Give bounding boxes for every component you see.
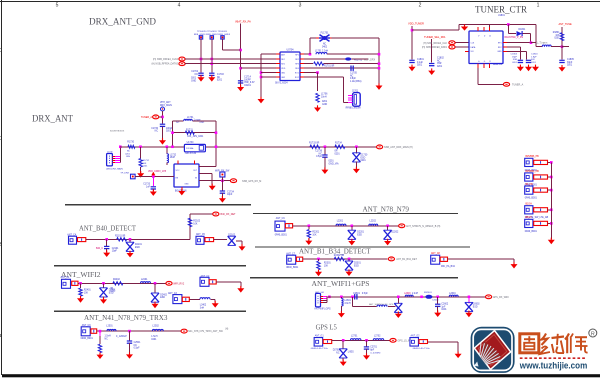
vertical ground bus left of U0704 [260,54,262,97]
connector pin feed [344,101,348,103]
GPS series element [323,340,332,344]
connector pins [112,155,115,157]
svg-text:0201: 0201 [335,153,341,155]
wire row3 resistor [304,63,313,65]
svg-text:0R: 0R [335,151,338,153]
ground C2501 [126,352,133,359]
ferrite bead FB2601 [425,295,432,299]
svg-text:GND_VIA: GND_VIA [329,162,340,165]
svg-text:1nF: 1nF [146,186,151,188]
wire coil down [340,297,342,299]
resistor R2402 on wire [113,282,123,285]
connector vertical bus [119,147,121,163]
off-page oval ANT_DRX [377,145,383,149]
svg-text:10K: 10K [193,223,198,225]
svg-text:VBAT_RX_PA: VBAT_RX_PA [235,20,251,23]
wire L2402 to gnd [210,298,215,300]
svg-text:B41/B7/B38JS: B41/B7/B38JS [110,131,125,133]
op-amp U0704 antenna switch IC [280,52,300,81]
wire GPS main [332,339,390,341]
resistor R1732 vertical [140,147,142,159]
wire B40 main [86,238,190,240]
wire W R down [80,283,82,288]
svg-text:NC: NC [350,75,354,77]
resistor pack 3 [534,188,548,192]
svg-text:1.1E (R5A): 1.1E (R5A) [350,80,362,83]
svg-text:10K_JRS_0201: 10K_JRS_0201 [187,136,204,138]
svg-text:FB1701: FB1701 [354,59,363,61]
svg-text:ANT_B1_B34_DET: ANT_B1_B34_DET [396,258,417,261]
off-page oval GPS RX [230,179,236,183]
junction main-loop right [215,145,218,148]
ground C1802 [428,68,435,75]
ground C1804 [525,65,532,72]
svg-text:TDK-XTFM: TDK-XTFM [184,153,196,155]
svg-text:N41_N78_N79_TRX3_ANT_SW: N41_N78_N79_TRX3_ANT_SW [188,330,223,333]
svg-text:ANT_N78_N79: ANT_N78_N79 [363,205,410,213]
junction W X2 [154,282,157,285]
svg-text:RF2: RF2 [498,47,502,49]
svg-text:L2702: L2702 [374,335,381,337]
svg-text:ANT_SWITCH_TO_GPS: ANT_SWITCH_TO_GPS [369,303,394,306]
svg-text:ANT_C6: ANT_C6 [276,217,286,220]
ground below C1 [237,85,244,92]
svg-text:TP_DRX: TP_DRX [120,173,129,175]
N78 series element [285,224,292,228]
junction R1732 [139,145,142,148]
capacitor C1802 [429,64,434,66]
svg-text:0201: 0201 [125,153,131,155]
wire X up to main [397,297,399,304]
svg-text:DRX_ANT_GND: DRX_ANT_GND [89,16,156,27]
U1731 top pin stubs [177,161,179,165]
junction loop left [351,296,354,299]
svg-text:10pF: 10pF [112,251,118,253]
svg-text:L2201: L2201 [337,220,344,222]
ESD D2202 X [384,230,392,239]
svg-text:U0704: U0704 [286,49,294,52]
column bus ground [548,238,555,245]
wire IN pin right [199,180,231,182]
wire C1733 down [152,189,154,191]
ground D2301 [346,269,353,276]
J2601 maroon wires [323,299,327,301]
wire X gnd [397,311,399,314]
svg-text:C2101: C2101 [112,248,119,250]
svg-text:U1801: U1801 [498,15,505,17]
loop top wire right [192,120,216,122]
svg-text:0201: 0201 [554,38,560,40]
svg-text:RF1: RF1 [498,43,502,45]
wire TRX3 cap down [129,331,131,341]
svg-text:5: 5 [56,3,59,9]
svg-text:SKY5_A234: SKY5_A234 [275,82,288,85]
ferrite bead FB1701 [345,57,351,60]
svg-text:(H) NXB_RFFE0_DATA: (H) NXB_RFFE0_DATA [422,46,448,49]
pin stub left U0704 [276,53,280,55]
magenta junction TRX3 [99,330,102,333]
svg-text:TUNER_A: TUNER_A [512,83,524,86]
wire to gnd corner [236,240,242,242]
inductor L2602 on loop [377,305,387,307]
resistor R2201 vertical [307,230,310,239]
wire up to tuner butterfly [309,38,311,54]
svg-text:0201: 0201 [191,78,197,80]
resistor R1731 on loop middle [185,131,194,134]
capacitor C2602 [435,304,440,306]
pin stub top U1801 [477,27,479,31]
ground R1732 [137,171,144,178]
node junction VBAT-1 [239,49,242,52]
resistor pack 1 [534,160,548,164]
ESD D2102 X on wire [228,236,236,245]
svg-text:WIFI_RX2: WIFI_RX2 [173,282,185,285]
resistor R1702 vertical [316,93,319,102]
svg-text:D1801: D1801 [519,29,526,31]
inductor L2701 [350,339,361,341]
pin stub left3 [465,50,469,52]
VDD up arrow [151,172,155,176]
ESD D2101 X symbol [126,242,134,251]
junction W ESD [102,282,105,285]
LNA IC U1731 [174,164,199,187]
off-page oval GPS L5 [390,338,396,342]
divider line WIFI1 [250,277,458,279]
svg-text:NC: NC [195,74,199,76]
svg-text:J1730: J1730 [107,151,113,153]
svg-text:L2402: L2402 [200,305,207,307]
svg-text:3.9nH: 3.9nH [344,303,350,305]
junction ESD B40 [129,238,132,241]
svg-text:0R40_B001: 0R40_B001 [525,231,538,233]
svg-text:FL1701: FL1701 [321,33,330,35]
ground U1731 [178,189,185,196]
svg-text:www.tuzhijie.com: www.tuzhijie.com [519,361,588,371]
wire R down [308,226,310,230]
ESD D2602 X [465,302,473,311]
wire EN pin right down [199,173,212,175]
divider line TRX3 [54,310,246,312]
ground C2602 [434,310,441,317]
svg-text:1.8pF: 1.8pF [531,56,537,58]
svg-text:0_0.8GHZ: 0_0.8GHZ [370,353,381,355]
wire row4 [304,67,379,69]
connector pin magenta [348,97,353,99]
capacitor C1805 [559,60,564,62]
logo dashed line [520,357,587,359]
wire up to detect out [189,214,191,239]
svg-text:ANT_WIFI1+GPS: ANT_WIFI1+GPS [312,280,370,288]
junction C1736 [324,145,327,148]
wire W ESD down [103,283,105,288]
wire WIFI2 main [78,282,166,284]
svg-text:50V: 50V [531,59,535,61]
capacitor C2501 [127,341,132,343]
wire ESD1 down [351,226,353,231]
testpoint pad circle [161,107,165,111]
junction cap right [436,296,439,299]
svg-text:R2201: R2201 [312,232,319,234]
junction ESD2 [386,225,389,228]
svg-text:10K: 10K [312,234,317,236]
net pad NC2 [210,36,213,39]
junction wires row1 [200,58,203,61]
GPS right series element [419,340,428,344]
ESD D2401 X [100,288,108,297]
antenna connector J1730 [107,154,113,166]
wire C1734 down [221,193,223,197]
off-page oval TUNER_A [503,82,509,86]
ESD D2301 X [345,261,353,270]
junction W R [79,282,82,285]
svg-text:R1732: R1732 [143,160,150,162]
svg-text:L2502: L2502 [152,326,159,328]
wire N78 main [293,225,399,227]
ground C1803 [517,65,524,72]
junction GPS cap [365,339,368,342]
pin stub left U0704 [276,58,280,60]
wire ESD2 gnd [387,239,389,240]
svg-text:ANT_C5: ANT_C5 [196,233,206,236]
pin stub right U0704 [300,58,304,60]
ground D2701 [340,359,347,366]
ground of left bus [258,97,265,104]
svg-text:D2301: D2301 [354,263,361,265]
pin stub bottom U1801 [489,64,491,68]
inductor L2401 [141,282,151,284]
connector pin magenta [348,99,353,101]
svg-text:NC: NC [155,131,159,133]
loop wire down [352,297,354,307]
svg-text:J1701: J1701 [352,91,359,93]
resistor pack 4 [534,208,548,212]
svg-text:X5R_6.3V: X5R_6.3V [244,82,255,84]
wire R2501 gnd [99,353,101,354]
node junction VBAT-2 [239,67,242,70]
svg-text:(H) NSB_RFFE4_DATA2: (H) NSB_RFFE4_DATA2 [152,63,179,66]
wire VDD vertical [411,26,413,59]
svg-text:VCC: VCC [176,170,181,172]
power arrow on wire [461,25,468,31]
svg-text:MIC_PA_B34: MIC_PA_B34 [441,265,455,268]
svg-text:C1730: C1730 [151,128,158,130]
svg-text:4: 4 [178,3,181,9]
ESD protection D1730 X symbol [352,153,360,162]
wire oval to node [159,116,163,118]
wire pack to bus 2 [548,176,552,178]
svg-text:DRX_ANT: DRX_ANT [32,113,73,124]
svg-text:LXES: LXES [348,351,354,353]
svg-text:GND: GND [191,80,196,82]
ground C1730 [159,138,166,145]
svg-text:L2501: L2501 [106,326,113,328]
ground R2401 [77,296,84,303]
off-page oval GPS WIFI [486,295,492,299]
ESD D2201 X [348,230,356,239]
bus junction p5 [260,71,263,74]
wire ESD gnd B1 [348,270,350,271]
svg-text:0201: 0201 [512,62,518,64]
ground below C3 [208,75,215,82]
svg-text:C2701: C2701 [370,347,377,349]
capacitor C2701 [364,347,369,349]
wire pack to bus 5 [548,222,552,224]
off-page oval B1 det [388,257,394,261]
svg-text:L2401: L2401 [141,279,148,281]
ground D2201 [348,239,355,246]
wire W X2 gnd [154,302,156,303]
wire WIFI2 right [216,281,241,283]
svg-text:18pF: 18pF [512,56,518,58]
ground C1801 [409,65,416,72]
ground R2201 [305,238,312,245]
RF test connector J1701 [353,93,361,107]
svg-text:0201: 0201 [441,309,447,311]
svg-text:NC: NC [323,44,327,46]
wire R2401 gnd [80,296,82,298]
off-page connector RFFE CLK oval [179,57,185,61]
WIFI2 right series element [209,280,216,284]
svg-text:D2102: D2102 [228,235,235,237]
wire ESD2 down [387,226,389,231]
wire bus to pin5 [261,72,276,74]
svg-text:0201: 0201 [110,291,116,293]
svg-text:C2603: C2603 [432,300,439,302]
divider line WIFI2 [54,265,246,267]
loop top wire left [173,120,184,122]
wire B1 main [303,258,388,260]
wire testpoint down [162,111,164,124]
U1731 bottom stub [181,187,183,191]
svg-text:ESD: ESD [473,306,478,308]
svg-text:0201: 0201 [329,161,335,163]
wire B1 R down [318,259,320,261]
wire RFFE DATA [185,63,280,65]
svg-text:0201: 0201 [166,131,172,133]
right vertical drop [378,38,380,84]
capacitor C1801 [409,60,414,62]
divider line B40 [65,204,251,206]
ground C1733 [150,189,157,196]
svg-text:ESD: ESD [354,265,359,267]
resistor R2102 vertical [188,218,191,227]
inductor L2201 [336,224,346,226]
pin stub left U0704 [276,63,280,65]
wire cap down [162,126,164,139]
svg-text:NC: NC [336,352,340,354]
wire VBAT to pin4 [241,67,280,69]
svg-text:RO2: RO2 [295,77,299,79]
junction at coil [309,53,312,56]
svg-text:VPH_ANT: VPH_ANT [160,101,171,104]
pin stub bottom U1801 [483,64,485,68]
capacitor C1 on VBAT [238,81,243,83]
wire TRX3 main [97,330,181,332]
connector pin magenta [348,101,353,103]
sheet left border [1,0,3,375]
ground third [532,65,539,72]
svg-text:2.2nH: 2.2nH [412,293,418,295]
capacitor C3 [209,73,214,75]
svg-text:(H): (H) [225,329,228,331]
ground L2601 [338,311,345,318]
svg-text:ESD: ESD [357,234,362,236]
main RF wire DRX [120,146,377,148]
ground C1805 [559,65,566,72]
resistor R1801 vertical [560,33,563,41]
capacitor C1804 [526,60,531,62]
logo fan tip [474,362,479,367]
svg-text:L2202: L2202 [370,220,377,222]
svg-text:GPS_RX_WIFI: GPS_RX_WIFI [493,296,509,299]
svg-text:R1734: R1734 [335,143,342,145]
inductor L1731 on loop top [184,119,193,121]
resistor R1734 on main wire [335,145,345,148]
pin stub top U1801 [483,27,485,31]
svg-text:ESD: ESD [160,297,165,299]
svg-text:GND: GND [184,184,189,186]
wire C2701 gnd [366,349,368,355]
magenta stub GPS X [468,297,470,304]
off-page oval N78 [399,224,405,228]
svg-text:VIO: VIO [471,51,475,53]
ground right B1 [511,262,518,269]
svg-text:C2501: C2501 [134,342,141,344]
svg-text:D2701: D2701 [333,350,340,352]
svg-text:C1802: C1802 [437,58,444,60]
junction main-loop left [171,145,174,148]
wire diode to vertical [523,33,531,35]
off-page oval TUNER_A left [153,115,159,119]
svg-text:TUNER_CTR: TUNER_CTR [475,5,528,15]
wire pack to bus 4 [548,209,552,211]
svg-text:L1706: L1706 [321,94,328,96]
logo badge [471,327,515,373]
svg-text:0201: 0201 [151,339,157,341]
svg-text:R1701 0R: R1701 0R [324,66,335,68]
capacitor C1734 [220,191,225,193]
svg-text:WLP_DRX: WLP_DRX [364,59,376,61]
off-page oval WIFI2 [166,281,172,285]
svg-text:R2402: R2402 [113,279,120,281]
wire GPS right [428,341,459,343]
antenna connector J2601 [316,293,321,307]
pin stub right U1801 [503,42,507,44]
inductor L2603 on wire [405,295,413,297]
svg-text:0201: 0201 [217,80,223,82]
wire pin1 bus [261,53,280,55]
wire row1 to vertical [327,53,379,55]
svg-text:B25/B66_PB: B25/B66_PB [526,156,540,158]
junction L1732 [166,145,169,148]
svg-text:C1736: C1736 [315,151,322,153]
wire cap right down [437,297,439,304]
wire cap to gnd [106,249,108,252]
svg-text:0201: 0201 [143,166,149,168]
svg-text:ANT_N41_N78_N79_TRX3: ANT_N41_N78_N79_TRX3 [84,314,168,322]
svg-text:R1730: R1730 [127,142,134,144]
wire ESD down [355,162,357,169]
svg-text:C1714: C1714 [244,77,251,79]
wire ESD gnd [129,251,131,253]
wire coil to node [551,46,562,48]
svg-text:NC: NC [319,153,323,155]
wire vdd rail corner down [535,25,537,47]
svg-text:GN1: GN1 [281,73,285,75]
ground C1736 [321,167,328,174]
svg-text:FB2601: FB2601 [424,292,432,294]
inductor L2202 [369,224,378,226]
